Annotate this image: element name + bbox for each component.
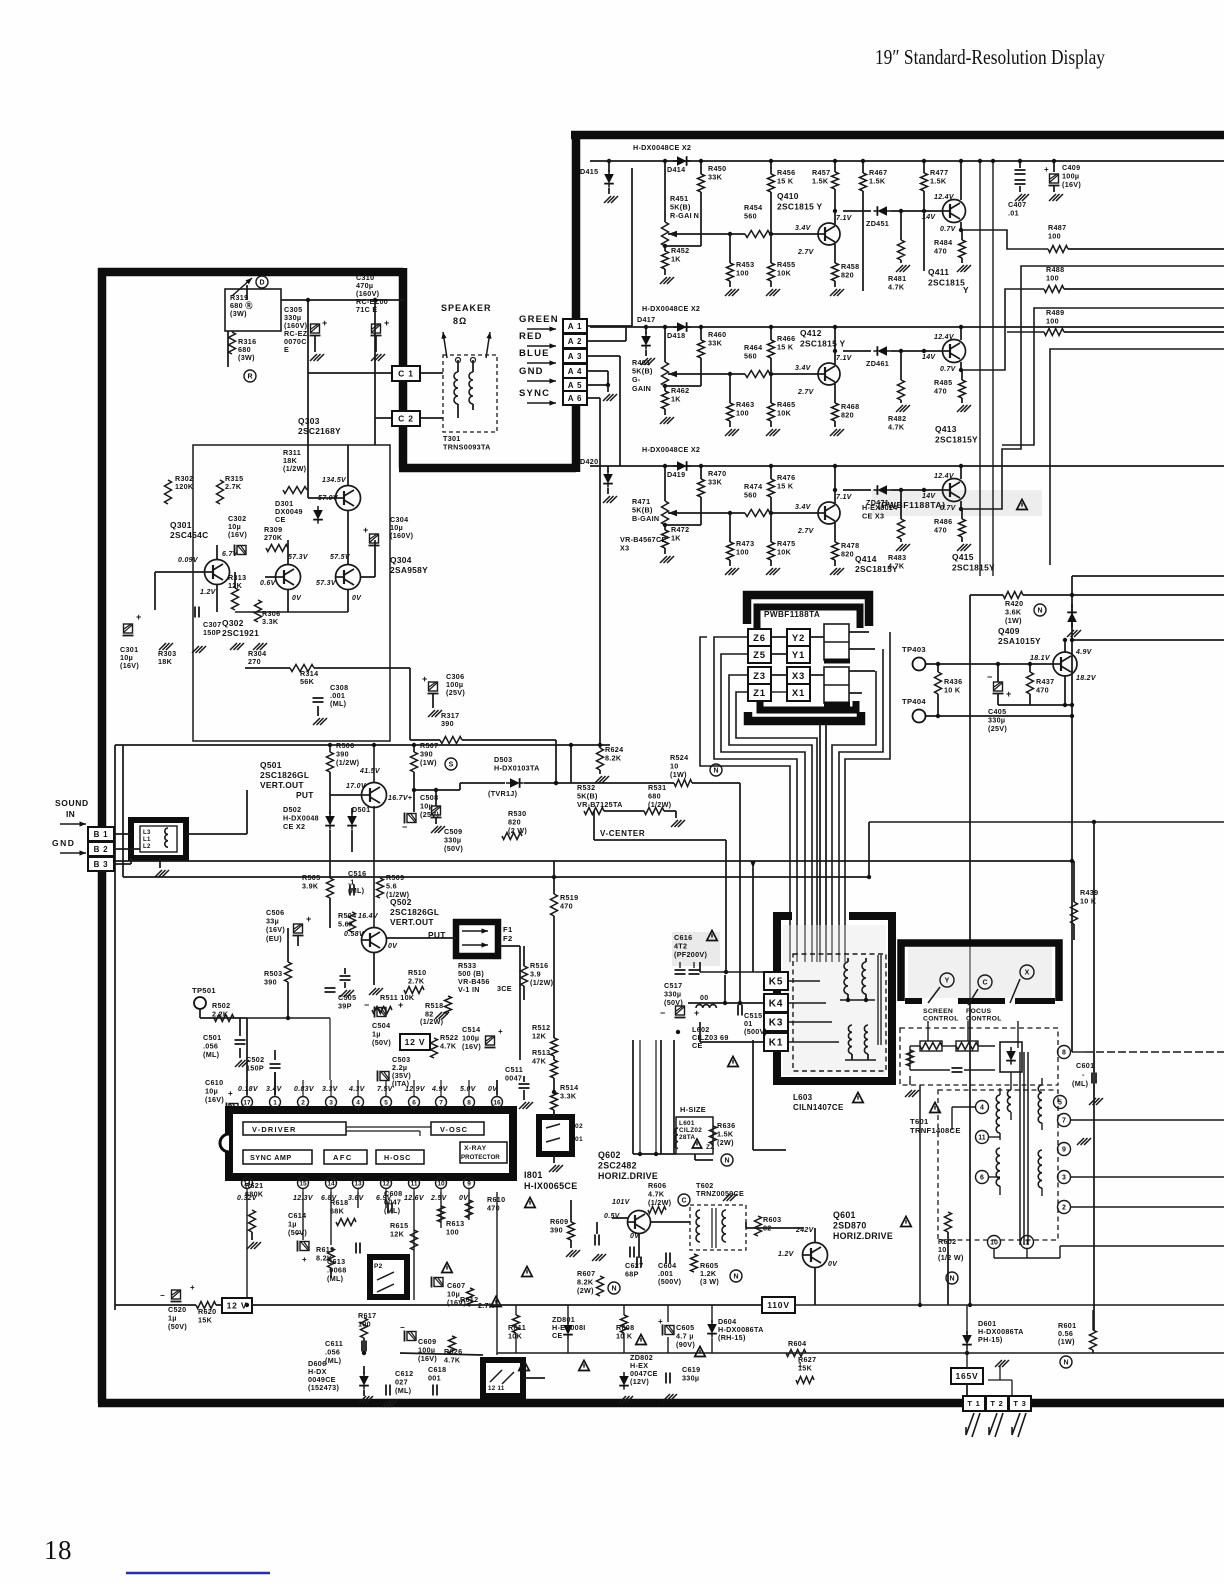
svg-text:10 K: 10 K: [1080, 897, 1097, 906]
connector B3: [88, 857, 114, 871]
capacitor: [340, 976, 351, 980]
wire: [556, 782, 674, 784]
wire: [746, 1227, 803, 1229]
wire: [752, 1040, 754, 1150]
svg-text:8.2K: 8.2K: [605, 754, 622, 763]
svg-text:2SC1815: 2SC1815: [928, 278, 965, 288]
svg-text:(RH-15): (RH-15): [718, 1333, 746, 1342]
165V box: [951, 1368, 983, 1384]
svg-text:CILZ02: CILZ02: [679, 1127, 702, 1134]
svg-text:3.3K: 3.3K: [262, 617, 279, 626]
resistor R483 4.7K: [900, 490, 902, 519]
svg-text:(16V): (16V): [462, 1042, 481, 1051]
svg-text:33K: 33K: [708, 339, 723, 348]
zener diode ZD461: [873, 346, 891, 356]
svg-text:2SC1826GL: 2SC1826GL: [390, 907, 439, 917]
svg-text:D501: D501: [352, 805, 370, 814]
connector C2: [375, 417, 392, 419]
svg-text:H-DX0048CE X2: H-DX0048CE X2: [642, 304, 700, 313]
svg-text:4.7K: 4.7K: [888, 423, 905, 432]
svg-text:10: 10: [437, 1180, 445, 1187]
dashed box pots: [900, 1028, 1058, 1085]
svg-text:(3 W): (3 W): [700, 1277, 719, 1286]
svg-text:2SC1815Y: 2SC1815Y: [855, 564, 898, 574]
svg-text:15: 15: [299, 1180, 307, 1187]
svg-text:71C E: 71C E: [356, 305, 377, 314]
svg-text:PH-15): PH-15): [978, 1335, 1003, 1344]
svg-text:7.5V: 7.5V: [377, 1086, 394, 1093]
connector Y1: [787, 646, 810, 663]
wire row bus: [590, 160, 1224, 162]
wire row y1355: [497, 1352, 1224, 1354]
svg-text:470: 470: [1036, 686, 1049, 695]
svg-text:0V: 0V: [828, 1261, 838, 1268]
wire K5 feed: [700, 971, 764, 973]
svg-text:100: 100: [1046, 317, 1059, 326]
svg-text:(ML): (ML): [325, 1356, 342, 1365]
svg-text:N: N: [949, 1276, 954, 1283]
svg-text:R604: R604: [788, 1339, 806, 1348]
svg-text:8: 8: [1062, 1050, 1066, 1057]
svg-text:TRNZ0059CE: TRNZ0059CE: [696, 1189, 744, 1198]
wire Q303 collector: [347, 445, 349, 486]
wire collector: [834, 211, 836, 224]
svg-text:L601: L601: [679, 1120, 695, 1127]
svg-text:270K: 270K: [264, 533, 283, 542]
wire: [665, 245, 701, 247]
svg-text:(16V): (16V): [205, 1095, 224, 1104]
svg-text:4.7K: 4.7K: [444, 1356, 461, 1365]
svg-text:(12V): (12V): [630, 1377, 649, 1386]
svg-text:Y1: Y1: [792, 650, 805, 661]
circled 4: [976, 1101, 989, 1114]
winding D: [1038, 1150, 1042, 1188]
svg-text:1.2V: 1.2V: [200, 589, 217, 596]
circled 8: [1058, 1046, 1071, 1059]
svg-text:PUT: PUT: [296, 790, 314, 800]
inductor L601 box: [676, 1117, 713, 1154]
wire base: [668, 233, 745, 235]
svg-text:470: 470: [560, 902, 573, 911]
svg-text:12 V: 12 V: [405, 1037, 426, 1047]
svg-text:15K: 15K: [198, 1316, 213, 1325]
connector blank boxes: [824, 624, 849, 660]
resistor R450 33K: [700, 161, 702, 174]
svg-text:R: R: [247, 374, 252, 381]
svg-text:2SC1826GL: 2SC1826GL: [260, 770, 309, 780]
grey patch screen: [908, 946, 1052, 998]
transistor Q414: [817, 502, 840, 524]
svg-text:V-DRIVER: V-DRIVER: [252, 1125, 297, 1134]
wire: [926, 715, 1072, 717]
svg-text:7.1V: 7.1V: [836, 494, 853, 501]
circled 7: [1058, 1114, 1071, 1127]
svg-text:L603: L603: [793, 1093, 813, 1102]
svg-text:D: D: [259, 280, 264, 287]
svg-text:P2: P2: [374, 1263, 383, 1270]
svg-text:(25V): (25V): [446, 688, 465, 697]
winding A: [996, 1095, 1000, 1133]
wire center feeds: [819, 723, 821, 962]
svg-text:2SD870: 2SD870: [833, 1221, 867, 1231]
svg-text:Q602: Q602: [598, 1150, 621, 1160]
12V box: [400, 1034, 430, 1050]
connector B2: [88, 842, 114, 856]
svg-text:SOUND: SOUND: [55, 798, 89, 808]
svg-text:13: 13: [354, 1180, 362, 1187]
svg-text:820: 820: [841, 411, 854, 420]
connector pins below: [966, 1413, 974, 1435]
svg-text:12.4V: 12.4V: [934, 334, 955, 341]
capacitor C627b: [637, 1257, 641, 1268]
svg-text:H-SIZE: H-SIZE: [680, 1105, 706, 1114]
svg-text:N: N: [713, 768, 718, 775]
svg-text:N: N: [733, 1274, 738, 1281]
svg-text:D419: D419: [667, 470, 685, 479]
svg-text:GAIN: GAIN: [632, 384, 651, 393]
svg-text:330µ: 330µ: [682, 1374, 699, 1383]
connector T2: [986, 1396, 1008, 1411]
thick PCB outline top-right step: [399, 135, 1224, 472]
svg-text:+: +: [136, 612, 142, 622]
svg-text:+: +: [228, 1089, 233, 1098]
warning triangle: [442, 1262, 452, 1272]
svg-text:02: 02: [575, 1123, 583, 1130]
circled D: [256, 276, 268, 288]
svg-text:A 4: A 4: [568, 367, 583, 376]
svg-text:12.9V: 12.9V: [405, 1086, 426, 1093]
svg-text:5.0V: 5.0V: [460, 1086, 477, 1093]
svg-text:Q412: Q412: [800, 328, 822, 338]
svg-text:PWBF1188TA: PWBF1188TA: [764, 610, 820, 619]
svg-text:B 3: B 3: [94, 860, 109, 869]
wire Q303 base: [307, 492, 309, 498]
svg-text:RED: RED: [519, 331, 543, 342]
svg-text:F2: F2: [503, 934, 512, 943]
svg-text:(3W): (3W): [230, 309, 247, 318]
svg-text:(50V): (50V): [372, 1038, 391, 1047]
svg-text:2SC1815 Y: 2SC1815 Y: [800, 339, 845, 349]
footer rule: [126, 1572, 270, 1574]
svg-text:1: 1: [273, 1099, 277, 1106]
svg-text:150P: 150P: [203, 628, 221, 637]
110V box: [762, 1297, 795, 1313]
connector C1: [308, 372, 392, 374]
switch box P thick: [370, 1257, 407, 1297]
svg-text:D418: D418: [667, 331, 685, 340]
transformer T602 dashed: [690, 1205, 746, 1250]
svg-text:2.7V: 2.7V: [797, 389, 815, 396]
svg-text:5: 5: [384, 1099, 388, 1106]
wire Q304: [360, 576, 375, 578]
svg-text:+: +: [302, 1255, 307, 1264]
wire: [660, 1040, 662, 1154]
wire: [909, 1076, 911, 1085]
resistor R482 4.7K: [900, 351, 902, 380]
IC block V-OSC: [431, 1122, 484, 1135]
svg-text:33K: 33K: [708, 173, 723, 182]
pot: [1020, 965, 1034, 979]
svg-text:CE X3: CE X3: [862, 512, 884, 521]
wire: [246, 790, 248, 834]
svg-text:B-GAIN: B-GAIN: [632, 514, 659, 523]
svg-text:1.5K: 1.5K: [930, 177, 947, 186]
svg-text:(16V): (16V): [228, 530, 247, 539]
svg-text:165V: 165V: [955, 1371, 978, 1381]
svg-text:Q415: Q415: [952, 552, 974, 562]
svg-text:(ML): (ML): [1072, 1079, 1089, 1088]
svg-text:CE: CE: [275, 515, 286, 524]
svg-text:+: +: [498, 1027, 503, 1036]
connector K3: [764, 1013, 788, 1031]
wire: [993, 1249, 995, 1258]
svg-text:A 3: A 3: [568, 352, 583, 361]
svg-text:2.7V: 2.7V: [797, 528, 815, 535]
svg-text:D415: D415: [580, 167, 598, 176]
svg-text:HORIZ.DRIVE: HORIZ.DRIVE: [833, 1231, 893, 1241]
wire: [952, 1106, 975, 1108]
resistor R436: [935, 672, 942, 694]
svg-text:+: +: [384, 318, 390, 328]
svg-text:T 1: T 1: [967, 1399, 980, 1408]
svg-text:33K: 33K: [708, 478, 723, 487]
svg-text:-: -: [1082, 1070, 1085, 1079]
svg-text:(1W): (1W): [1058, 1337, 1075, 1346]
svg-text:4.7K: 4.7K: [440, 1042, 457, 1051]
svg-text:3CE: 3CE: [497, 984, 512, 993]
svg-text:(50V): (50V): [168, 1322, 187, 1331]
svg-text:28TA: 28TA: [679, 1134, 695, 1141]
connector Z5: [748, 646, 771, 663]
svg-text:Q410: Q410: [777, 191, 799, 201]
svg-text:+: +: [363, 525, 369, 535]
svg-text:19″ Standard-Resolution Displa: 19″ Standard-Resolution Display: [875, 45, 1105, 69]
svg-text:ZD451: ZD451: [866, 219, 889, 228]
ground: [723, 1194, 737, 1201]
diode D419: [673, 461, 691, 471]
svg-text:68P: 68P: [625, 1270, 639, 1279]
resistor R437: [1027, 672, 1034, 694]
svg-text:17: 17: [243, 1099, 251, 1106]
ground: [159, 643, 173, 650]
svg-text:2: 2: [1062, 1205, 1066, 1212]
wire: [834, 327, 836, 351]
svg-text:470: 470: [934, 526, 947, 535]
svg-text:2SC1921: 2SC1921: [222, 628, 259, 638]
svg-text:2SC1815 Y: 2SC1815 Y: [777, 202, 822, 212]
svg-text:R-GAI N: R-GAI N: [670, 211, 699, 220]
svg-text:GND: GND: [52, 838, 75, 848]
svg-text:001: 001: [428, 1374, 441, 1383]
svg-text:+: +: [190, 1283, 195, 1292]
resistor R460 33K: [700, 327, 702, 340]
dashed coil box L603: [793, 954, 886, 1071]
svg-text:(1W): (1W): [1005, 616, 1022, 625]
svg-text:0.6V: 0.6V: [260, 580, 277, 587]
svg-text:16.4V: 16.4V: [358, 913, 379, 920]
wire: [638, 1234, 640, 1258]
svg-text:(1/2W): (1/2W): [530, 978, 554, 987]
svg-text:B 2: B 2: [94, 845, 109, 854]
svg-text:10: 10: [990, 1240, 998, 1247]
svg-text:100: 100: [1048, 232, 1061, 241]
svg-text:+: +: [306, 914, 312, 924]
svg-text:14V: 14V: [922, 214, 936, 221]
svg-text:2: 2: [301, 1099, 305, 1106]
svg-text:3.4V: 3.4V: [795, 504, 812, 511]
wire: [989, 1136, 1000, 1138]
svg-text:4.9V: 4.9V: [1075, 649, 1093, 656]
diode D418: [673, 322, 691, 332]
svg-text:4.7K: 4.7K: [888, 283, 905, 292]
svg-text:ZZ: ZZ: [706, 1144, 714, 1151]
circled 6: [976, 1171, 989, 1184]
svg-text:18.2V: 18.2V: [1076, 675, 1097, 682]
thick K-block frame: [777, 916, 892, 1081]
wire speaker leads: [443, 332, 447, 358]
svg-text:2.7V: 2.7V: [797, 249, 815, 256]
resistor R636: [710, 1126, 717, 1144]
svg-text:H-DX0103TA: H-DX0103TA: [494, 764, 540, 773]
svg-text:820: 820: [841, 271, 854, 280]
wire: [795, 1304, 970, 1306]
svg-text:(TVR1J): (TVR1J): [488, 789, 518, 798]
connector T1: [963, 1396, 985, 1411]
svg-text:100: 100: [736, 548, 749, 557]
12V box: [222, 1298, 252, 1313]
resistor: [907, 1050, 914, 1066]
svg-text:PROTECTOR: PROTECTOR: [461, 1154, 500, 1161]
IC block AFC: [324, 1150, 367, 1164]
svg-text:470: 470: [934, 247, 947, 256]
svg-text:560: 560: [744, 212, 757, 221]
svg-text:(3W): (3W): [238, 353, 255, 362]
wire collector2: [960, 466, 962, 479]
svg-text:C 1: C 1: [398, 369, 414, 379]
svg-text:680K: 680K: [245, 1190, 264, 1199]
thick PCB outline left frame: [98, 268, 1224, 1403]
svg-text:820: 820: [841, 550, 854, 559]
svg-text:120K: 120K: [175, 482, 194, 491]
wire: [553, 861, 555, 877]
wire A3 out: [587, 355, 620, 357]
svg-text:10 K: 10 K: [944, 686, 961, 695]
svg-text:2SC2482: 2SC2482: [598, 1161, 637, 1171]
svg-text:15 K: 15 K: [777, 482, 794, 491]
svg-text:(160V): (160V): [390, 531, 414, 540]
svg-text:(1/2W): (1/2W): [648, 1198, 672, 1207]
svg-text:3.3K: 3.3K: [560, 1092, 577, 1101]
core lines: [877, 955, 879, 1045]
wire emitter2: [960, 501, 962, 509]
svg-text:56K: 56K: [300, 677, 315, 686]
wire base: [668, 373, 745, 375]
fuse box F1 F2 thick: [456, 922, 498, 956]
circled N: [721, 1154, 733, 1166]
focus control pot: [978, 975, 992, 989]
svg-text:6.7V: 6.7V: [222, 551, 239, 558]
svg-text:Z1: Z1: [753, 688, 766, 699]
svg-text:V-1 IN: V-1 IN: [458, 985, 480, 994]
svg-text:(500V): (500V): [658, 1277, 682, 1286]
svg-text:470: 470: [934, 387, 947, 396]
svg-text:Y: Y: [945, 978, 950, 985]
svg-text:560: 560: [744, 352, 757, 361]
wire audio loop: [193, 445, 390, 741]
wire: [814, 1267, 816, 1305]
potentiometer screen: [920, 1041, 942, 1051]
svg-text:47K: 47K: [532, 1057, 547, 1066]
svg-text:Z5: Z5: [753, 650, 766, 661]
svg-text:−: −: [402, 822, 408, 832]
svg-text:L1: L1: [143, 837, 151, 843]
svg-text:V-CENTER: V-CENTER: [600, 829, 645, 838]
wire: [612, 1217, 628, 1219]
svg-text:(500V): (500V): [744, 1027, 768, 1036]
svg-text:D417: D417: [637, 315, 655, 324]
svg-text:K1: K1: [769, 1038, 783, 1049]
svg-text:68K: 68K: [330, 1207, 345, 1216]
wire A1 out: [587, 325, 632, 327]
wire: [247, 1017, 330, 1019]
svg-text:CE X2: CE X2: [283, 822, 305, 831]
svg-text:Q303: Q303: [298, 416, 320, 426]
wire outer left vertical: [700, 637, 790, 962]
svg-text:C601: C601: [1076, 1061, 1094, 1070]
thick screen-focus box: [901, 943, 1059, 1001]
wire x1094: [1093, 822, 1095, 1330]
svg-text:SYNC AMP: SYNC AMP: [250, 1153, 292, 1162]
wire: [834, 466, 836, 490]
svg-text:E: E: [284, 345, 289, 354]
wire IC top feeds: [246, 1080, 248, 1095]
wire: [386, 937, 456, 939]
svg-text:(2 W): (2 W): [508, 826, 527, 835]
resistor R603: [755, 1216, 762, 1236]
svg-text:14: 14: [327, 1180, 335, 1187]
svg-text:(1/2W): (1/2W): [648, 800, 672, 809]
svg-text:0.7V: 0.7V: [940, 366, 957, 373]
wire right exits: [1060, 1245, 1224, 1247]
wire pots: [942, 1045, 956, 1047]
svg-text:6: 6: [412, 1099, 416, 1106]
svg-text:L2: L2: [143, 844, 151, 850]
wire: [926, 663, 1053, 665]
svg-text:I801: I801: [524, 1170, 543, 1180]
IC top pins: [242, 1097, 253, 1108]
svg-text:Q301: Q301: [170, 520, 192, 530]
warning: [728, 1056, 738, 1066]
svg-text:−: −: [160, 1291, 165, 1300]
connector B1: [88, 827, 114, 841]
svg-text:CILN1407CE: CILN1407CE: [793, 1103, 844, 1112]
svg-text:(2W): (2W): [717, 1138, 734, 1147]
winding C: [1038, 1085, 1042, 1123]
IC block SYNC AMP: [243, 1150, 312, 1164]
svg-text:A 5: A 5: [568, 381, 583, 390]
svg-text:VERT.OUT: VERT.OUT: [390, 917, 434, 927]
svg-text:12.4V: 12.4V: [934, 473, 955, 480]
svg-text:18: 18: [44, 1535, 72, 1565]
wire base: [668, 512, 745, 514]
svg-text:0V: 0V: [292, 595, 302, 602]
svg-text:(ML): (ML): [327, 1274, 344, 1283]
svg-text:(1/2W): (1/2W): [336, 758, 360, 767]
svg-text:3: 3: [329, 1099, 333, 1106]
connector Z3: [748, 667, 771, 684]
svg-text:1K: 1K: [671, 395, 681, 404]
svg-text:14V: 14V: [922, 354, 936, 361]
